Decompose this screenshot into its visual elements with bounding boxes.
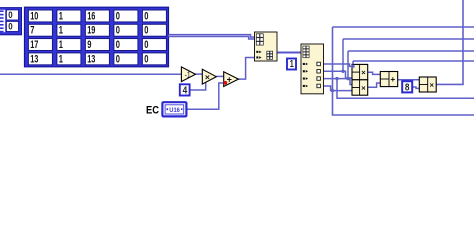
junction dot row3 branch up: [346, 77, 349, 80]
wire decrement to multiply: [196, 73, 203, 75]
svg-text:+: +: [227, 75, 232, 85]
wire multiply output up to top edge: [436, 0, 463, 84]
multiply node M2: [352, 80, 368, 95]
numeric constant 4: [180, 84, 190, 96]
svg-text:+: +: [391, 75, 396, 84]
array index display: [0, 8, 22, 35]
junction dot row3 branch down: [335, 77, 338, 80]
svg-text:0: 0: [144, 39, 148, 51]
svg-text:13: 13: [30, 53, 38, 65]
svg-text:10: 10: [30, 10, 38, 22]
wire branch vertical 2: [342, 39, 344, 71]
wire top branch 1 to right edge: [333, 26, 474, 28]
wire constant 4 to multiply: [190, 81, 206, 91]
wire branch down to right edge y98: [337, 79, 474, 99]
wire input from left edge to decrement: [0, 73, 181, 75]
svg-text:0: 0: [144, 10, 148, 22]
wire U2 row4 to multiply M2: [321, 86, 352, 91]
wire top branch 4 to right edge: [353, 60, 474, 62]
add node: [380, 72, 397, 87]
wire add node to multiply node: [398, 79, 420, 81]
multiply node M1: [352, 64, 368, 79]
svg-text:-1: -1: [185, 70, 191, 79]
svg-text:19: 19: [87, 25, 95, 37]
Index Array U1: [255, 32, 278, 61]
junction dot row2: [341, 70, 344, 73]
2D array constant table: [25, 7, 169, 67]
wire branch vertical to bottom right edge: [333, 27, 474, 115]
wire Index Array U1 output to Index Array U2: [277, 52, 302, 54]
svg-text:0: 0: [116, 10, 120, 22]
svg-text:0: 0: [116, 53, 120, 65]
wire 2D array to Index Array U1: [169, 36, 255, 38]
add triangle: [224, 72, 239, 87]
svg-text:0: 0: [116, 39, 120, 51]
svg-text:1: 1: [59, 39, 63, 51]
wire add output to Index Array U1 index input: [239, 58, 255, 80]
wire EC U16 to add: [187, 83, 224, 109]
wire branch vertical 4: [352, 61, 354, 66]
svg-text:×: ×: [430, 80, 435, 89]
junction dot row4: [331, 89, 334, 92]
svg-text:EC: EC: [146, 105, 159, 117]
wire multiply M2 output to add node: [368, 83, 381, 87]
wire U2 row2 to multiply M1: [321, 71, 352, 78]
svg-text:17: 17: [30, 39, 38, 51]
junction dot row1: [351, 65, 354, 68]
wire top branch 2 to right edge: [343, 38, 474, 40]
svg-text:4: 4: [183, 85, 188, 96]
wire top branch 3 to right edge: [348, 50, 474, 52]
svg-text:1: 1: [59, 53, 63, 65]
wire U2 row1 to multiply M1: [321, 64, 352, 66]
svg-text:16: 16: [87, 10, 95, 22]
svg-text:0: 0: [8, 10, 12, 20]
coercion dot on add input: [223, 81, 227, 85]
svg-text:1: 1: [290, 59, 294, 70]
svg-text:8: 8: [405, 82, 410, 93]
svg-text:0: 0: [144, 53, 148, 65]
numeric constant 1: [287, 59, 296, 71]
svg-text:0: 0: [144, 25, 148, 37]
multiply triangle: [202, 69, 216, 84]
multiply node M3: [419, 77, 436, 92]
EC U16 control terminal: [162, 102, 186, 116]
svg-text:U16: U16: [169, 107, 180, 114]
svg-text:1: 1: [59, 25, 63, 37]
wire multiply to add: [216, 75, 223, 77]
svg-text:0: 0: [8, 22, 12, 32]
svg-text:13: 13: [87, 53, 95, 65]
svg-text:9: 9: [87, 39, 91, 51]
decrement -1: [181, 67, 195, 82]
svg-text:0: 0: [116, 25, 120, 37]
svg-text:×: ×: [361, 83, 366, 92]
wire constant 8 to multiply node: [412, 87, 419, 88]
wire multiply M1 output to add node: [368, 72, 381, 74]
wire branch vertical 3: [347, 51, 349, 79]
svg-text:7: 7: [30, 25, 34, 37]
svg-text:1: 1: [59, 10, 63, 22]
wire U2 row3 to multiply M2: [321, 79, 352, 85]
svg-text:×: ×: [205, 72, 210, 82]
Index Array U2: [301, 44, 324, 94]
svg-text:×: ×: [361, 68, 366, 77]
numeric constant 8: [402, 81, 412, 93]
